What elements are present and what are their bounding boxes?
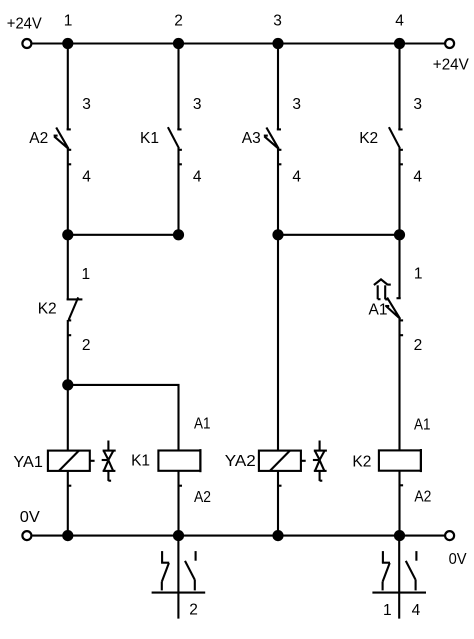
wire YA1 to bottom rail — [68, 471, 72, 536]
pin 2 label contact K2 rung1 — [82, 337, 91, 354]
svg-text:K2: K2 — [359, 130, 378, 147]
node rail dot rung2 — [173, 38, 184, 49]
svg-text:4: 4 — [193, 169, 202, 186]
label YA1 — [13, 454, 43, 471]
svg-text:A1: A1 — [414, 416, 431, 433]
svg-text:+24V: +24V — [7, 16, 43, 33]
0V label right — [449, 551, 468, 568]
contact cross-reference table K2 — [372, 536, 426, 619]
svg-text:YA1: YA1 — [13, 454, 43, 471]
pin 1 label contact A1 — [414, 266, 423, 283]
svg-text:4: 4 — [292, 169, 301, 186]
pin 3 label contact K1 — [193, 96, 202, 113]
wire rung4 node row to contact A1 — [398, 235, 400, 299]
solenoid coil YA2 — [259, 451, 306, 471]
pin 2 label contact A1 — [414, 337, 423, 354]
node bottom dot rung3 — [272, 530, 283, 541]
suppressor (back-to-back zener) for YA2 — [313, 441, 327, 481]
K2 NO contact rung reference 4 — [412, 602, 421, 619]
svg-text:2: 2 — [174, 13, 183, 30]
svg-text:3: 3 — [82, 96, 91, 113]
wire rung1 contact A2 to node row — [67, 149, 69, 235]
0V left terminal — [22, 531, 31, 540]
label A3 — [242, 130, 261, 147]
wire rung3 contact A3 to node row — [277, 149, 279, 235]
node dot rung4 row1 — [394, 229, 405, 240]
K2 NC contact rung reference 1 — [383, 602, 392, 619]
node rail dot rung3 — [272, 38, 283, 49]
rung number 2 — [174, 13, 183, 30]
relay coil K2 — [379, 449, 421, 472]
svg-text:A2: A2 — [414, 488, 431, 505]
top rail +24V — [32, 42, 445, 44]
svg-text:3: 3 — [413, 96, 422, 113]
wire rung3 rail to contact A3 — [277, 44, 279, 130]
wire rung1 node row to contact K2 — [67, 235, 69, 300]
pin A2 label K2 coil — [414, 488, 431, 505]
svg-text:4: 4 — [413, 169, 422, 186]
contact cross-reference table K1 — [152, 536, 206, 619]
label A2 — [29, 130, 48, 147]
wire node row rung1-rung2 — [68, 234, 179, 236]
K1 NO contact rung reference 2 — [189, 602, 198, 619]
+24V right terminal — [445, 39, 454, 48]
pin 4 label contact K1 — [193, 169, 202, 186]
svg-text:1: 1 — [64, 13, 73, 30]
contact A1 (limit switch NO, one-way actuation arrow) — [374, 279, 403, 335]
+24V label top-left — [7, 16, 43, 33]
svg-text:3: 3 — [292, 96, 301, 113]
label K2 rung1 — [38, 301, 57, 318]
wire rung3 node row to YA2 — [277, 235, 279, 451]
label A1 contact — [369, 302, 388, 319]
node rail dot rung4 — [394, 38, 405, 49]
contact A3 (limit switch NO) — [264, 128, 282, 165]
svg-text:+24V: +24V — [433, 57, 470, 74]
pin 3 label contact A3 — [292, 96, 301, 113]
svg-text:2: 2 — [82, 337, 91, 354]
wire K1 coil to bottom rail — [179, 471, 183, 536]
label K2 rung4 — [359, 130, 378, 147]
wire rung1 contact K2 to branch node — [67, 320, 69, 385]
svg-text:A3: A3 — [242, 130, 261, 147]
pin 3 label contact A2 — [82, 96, 91, 113]
wire rung1 rail to contact A2 — [67, 44, 69, 130]
label K1 — [140, 130, 159, 147]
relay coil K1 — [158, 449, 200, 472]
bottom rail 0V — [32, 535, 445, 537]
svg-text:K1: K1 — [140, 130, 159, 147]
wire rung4 rail to contact K2 — [398, 44, 400, 130]
label YA2 — [225, 453, 256, 470]
svg-text:A2: A2 — [194, 489, 211, 506]
pin 1 label contact K2 rung1 — [82, 266, 91, 283]
svg-text:K1: K1 — [131, 453, 150, 470]
solenoid coil YA1 — [48, 451, 95, 471]
+24V left terminal — [22, 39, 31, 48]
wire K2 coil to bottom rail — [400, 471, 404, 536]
svg-text:1: 1 — [414, 266, 423, 283]
contact A2 (limit switch NO) — [54, 128, 72, 165]
wire rung1 branch node to YA1 — [67, 385, 69, 451]
svg-text:A2: A2 — [29, 130, 48, 147]
svg-text:YA2: YA2 — [225, 453, 256, 470]
pin 4 label contact K2 rung4 — [413, 169, 422, 186]
node bottom dot rung4 — [394, 530, 405, 541]
pin 4 label contact A3 — [292, 169, 301, 186]
node dot rung1 row1 — [62, 229, 73, 240]
label K1 coil — [131, 453, 150, 470]
node dot branch rung1 — [62, 379, 73, 390]
svg-text:4: 4 — [395, 13, 404, 30]
node rail dot rung1 — [62, 38, 73, 49]
contact K2 rung1 (NC) — [67, 297, 83, 335]
svg-text:2: 2 — [189, 602, 198, 619]
suppressor (back-to-back zener) for YA1 — [102, 441, 116, 481]
rung number 4 — [395, 13, 404, 30]
+24V label right — [433, 57, 470, 74]
wire rung2 rail to contact K1 — [177, 44, 179, 130]
svg-text:K2: K2 — [352, 454, 371, 471]
node bottom dot rung2 — [173, 530, 184, 541]
0V label left — [20, 509, 41, 526]
contact K1 (NO) — [168, 127, 182, 164]
pin A1 label K1 coil — [194, 416, 211, 433]
label K2 coil — [352, 454, 371, 471]
pin 4 label contact A2 — [82, 169, 91, 186]
svg-text:3: 3 — [273, 13, 282, 30]
wire rung2 contact K1 to node row — [177, 148, 179, 235]
wire rung4 contact A1 to K2 coil — [398, 319, 400, 451]
node dot rung3 row1 — [272, 229, 283, 240]
wire rung4 contact K2 to node row — [398, 148, 400, 235]
svg-text:1: 1 — [383, 602, 392, 619]
wire YA2 to bottom rail — [278, 471, 282, 536]
svg-text:2: 2 — [414, 337, 423, 354]
svg-text:K2: K2 — [38, 301, 57, 318]
wire branch rung1 to K1 coil — [68, 385, 179, 451]
svg-text:A1: A1 — [369, 302, 388, 319]
svg-text:A1: A1 — [194, 416, 211, 433]
pin 3 label contact K2 — [413, 96, 422, 113]
rung number 3 — [273, 13, 282, 30]
svg-text:4: 4 — [82, 169, 91, 186]
svg-text:0V: 0V — [20, 509, 41, 526]
svg-text:4: 4 — [412, 602, 421, 619]
pin A1 label K2 coil — [414, 416, 431, 433]
svg-text:3: 3 — [193, 96, 202, 113]
wire node row rung3-rung4 — [278, 234, 400, 236]
node dot rung2 row1 — [173, 229, 184, 240]
svg-text:1: 1 — [82, 266, 91, 283]
node bottom dot rung1 — [62, 530, 73, 541]
rung number 1 — [64, 13, 73, 30]
svg-text:0V: 0V — [449, 551, 468, 568]
pin A2 label K1 coil — [194, 489, 211, 506]
contact K2 rung4 (NO) — [389, 127, 403, 164]
0V right terminal — [445, 531, 454, 540]
